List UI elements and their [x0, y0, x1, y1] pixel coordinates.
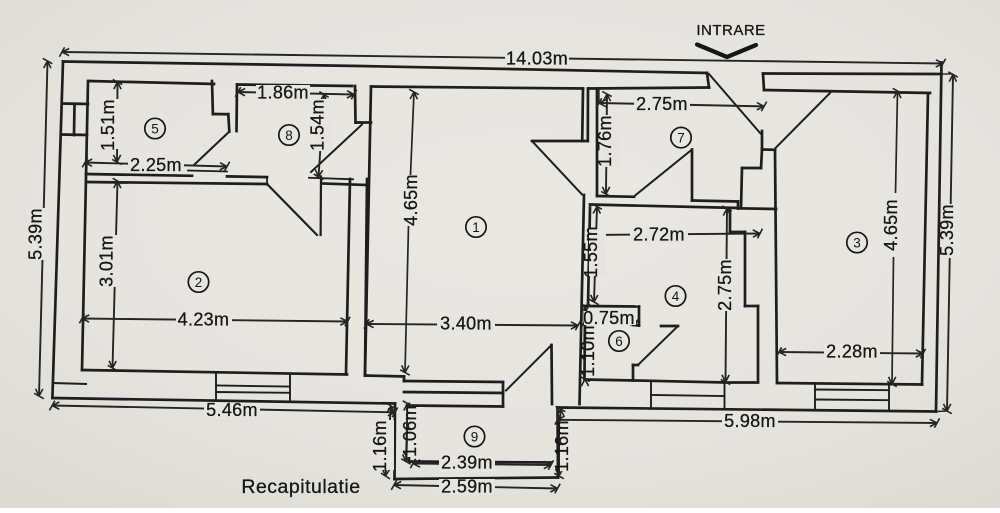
svg-text:5.98m: 5.98m — [724, 411, 776, 431]
window in left wall: mid divider — [73, 104, 76, 135]
wall 7/3 left face jog horizontal — [742, 167, 761, 170]
svg-text:4.65m: 4.65m — [401, 174, 421, 226]
wall between room 2 and room 1: left face — [346, 179, 350, 374]
svg-text:1.76m: 1.76m — [595, 115, 615, 167]
exterior top wall outer line (left of entrance) — [63, 62, 707, 74]
room 2 top wall opening cap — [266, 177, 268, 184]
dimension 1.86m (room 8) — [238, 92, 354, 95]
dimension 1.51m (room 5) — [116, 82, 119, 162]
svg-text:2.25m: 2.25m — [130, 155, 182, 175]
svg-text:2.39m: 2.39m — [441, 453, 493, 473]
room 5 door leaf — [195, 132, 230, 165]
room 2 floor line — [82, 370, 347, 375]
svg-text:4.23m: 4.23m — [178, 310, 230, 330]
room 4 right wall jog — [730, 231, 745, 234]
room 9 outer left wall — [393, 404, 396, 480]
window below room 3: right jamb — [888, 385, 890, 411]
room 7 floor band lower seg b — [738, 207, 776, 210]
dimension 1.16m (room 9 right) — [559, 409, 561, 476]
svg-text:1.16m: 1.16m — [370, 420, 390, 472]
wall room1/room7 post left — [581, 89, 584, 142]
wall 7/3 left face jog vertical — [741, 168, 742, 208]
room number 6 — [609, 331, 629, 351]
room number 8 — [279, 125, 299, 145]
room 1 floor line left part — [365, 376, 404, 377]
svg-text:2: 2 — [195, 275, 203, 290]
room 2 top wall lower line (left of door) — [86, 182, 267, 184]
room 5 right wall lower segment — [228, 114, 229, 131]
window in left wall: top sill — [63, 102, 89, 105]
svg-text:5.39m: 5.39m — [26, 208, 46, 260]
svg-text:5.46m: 5.46m — [206, 400, 258, 420]
shaft right wall — [638, 307, 641, 326]
dimension 1.54m (room 8) — [319, 95, 325, 178]
window below room 1: top line — [404, 381, 503, 382]
window below room 2: left jamb — [215, 373, 217, 401]
room number 9 — [464, 426, 484, 446]
room 7 door leaf — [532, 141, 582, 195]
room 4 right wall lower — [757, 306, 760, 382]
room 9 outer right wall — [556, 408, 559, 478]
window below room 1: right jamb — [502, 382, 505, 407]
room 8/2 door jamb line — [320, 177, 323, 236]
room 6 door leaf — [638, 326, 678, 365]
svg-text:3: 3 — [853, 235, 861, 250]
door room1-room9: leaf — [506, 345, 552, 391]
room 8 right wall jog — [356, 121, 372, 124]
room number 3 — [847, 232, 867, 252]
room 2 top wall upper line seg b — [227, 175, 267, 178]
window below room 3: sill 2 — [815, 399, 889, 402]
room 4 floor seg — [725, 381, 758, 384]
room 7 top wall inner line — [588, 88, 709, 89]
room 5 right wall jog — [213, 113, 228, 116]
room 9 outer bottom wall — [395, 478, 559, 480]
dimension 5.39m left — [39, 61, 48, 396]
wall between room 2 and room 1: right face — [365, 179, 367, 376]
exterior right wall outer line — [936, 63, 942, 412]
wall room1/room7 post right — [586, 89, 589, 142]
exterior top wall outer line (right of entrance) — [763, 72, 942, 75]
room 1 top wall inner line — [371, 87, 583, 89]
shaft top line (0.75m) — [587, 305, 639, 308]
room 7 floor band upper seg a — [597, 195, 634, 199]
room number 7 — [671, 127, 691, 147]
room 2 top wall upper line seg a — [86, 174, 192, 176]
room 6 floor notch horizontal — [633, 364, 638, 367]
svg-text:1.51m: 1.51m — [98, 99, 118, 151]
wall 7/3 left face upper vertical — [761, 150, 762, 169]
room 3 top wall inner line — [764, 90, 930, 93]
room 7 floor band upper seg b — [692, 201, 738, 202]
extension top-right — [942, 73, 954, 75]
window below room 2: sill line 1 — [216, 386, 290, 387]
window in left wall: bottom sill — [62, 133, 88, 136]
dimension 1.06m (room 9 inner left) — [406, 404, 408, 462]
svg-text:7: 7 — [677, 130, 685, 145]
room 7 floor band lower line — [590, 205, 738, 209]
dimension 3.40m (room 1 width) — [367, 324, 579, 326]
room 7 floor band step — [737, 202, 740, 209]
window below room 3: sill 1 — [815, 389, 889, 392]
room 6 door top stub — [661, 325, 678, 328]
svg-text:2.75m: 2.75m — [636, 94, 688, 114]
room 5 door threshold line — [188, 171, 227, 172]
room 6 left wall — [583, 306, 586, 380]
dimension 4.65m (room 1) — [411, 92, 415, 175]
room 5 top wall inner line — [89, 81, 214, 84]
svg-text:4: 4 — [672, 289, 680, 304]
svg-text:2.72m: 2.72m — [633, 225, 685, 245]
room 9 floor inner line — [409, 462, 551, 463]
dimension 14.03m top — [62, 52, 943, 64]
exterior bottom wall outer line (left of room 9) — [52, 398, 395, 404]
room 5 right wall upper segment — [211, 81, 215, 114]
window below room 1: mid line — [404, 392, 503, 393]
dimension 5.46m (bottom left) — [52, 406, 395, 413]
dimension 4.23m (room 2 width) — [82, 319, 348, 322]
svg-text:1: 1 — [472, 220, 480, 235]
room 8 top wall inner line — [237, 85, 352, 87]
dimension 0.75m (shaft) — [585, 320, 637, 323]
room 3 floor line — [777, 383, 922, 385]
window below room 1: bottom line — [407, 406, 503, 407]
entrance door leaf — [709, 74, 761, 134]
svg-text:3.01m: 3.01m — [97, 235, 117, 287]
dimension 2.75m (room 4 height) — [726, 209, 728, 383]
svg-text:1.10m: 1.10m — [578, 325, 598, 377]
room 4 right wall mid — [744, 232, 747, 306]
svg-text:2.28m: 2.28m — [826, 342, 878, 362]
room 7/4 door jamb wall — [691, 150, 694, 201]
dimension 5.98m (bottom right) — [558, 420, 938, 423]
wall 7/3 top edge — [762, 148, 775, 151]
room 8 door threshold line — [309, 178, 353, 180]
dimension 2.39m (room 9 inner width) — [413, 464, 551, 466]
window below room 3: left jamb — [814, 384, 816, 410]
room 8 right wall upper segment — [354, 86, 357, 123]
wall room1/room4 right face — [588, 208, 590, 307]
svg-text:1.86m: 1.86m — [257, 83, 309, 103]
svg-text:1.55m: 1.55m — [581, 226, 601, 278]
dimension 2.59m (room 9 outer width) — [394, 485, 558, 489]
svg-text:4.65m: 4.65m — [881, 199, 901, 251]
entrance opening right jamb — [763, 74, 764, 91]
room number 4 — [665, 286, 685, 306]
entrance opening left jamb — [707, 73, 709, 88]
room 9 inner left wall — [408, 404, 411, 462]
svg-text:2.75m: 2.75m — [715, 259, 735, 311]
svg-text:Recapitulatie: Recapitulatie — [241, 476, 360, 498]
dimension 2.75m (room 7 width) — [599, 103, 764, 106]
dimension 1.10m (room 6) — [582, 304, 586, 311]
dimension 4.65m (room 3) — [896, 91, 898, 193]
dimension 1.76m (room 7) — [606, 94, 607, 194]
dimension 5.39m right — [947, 75, 953, 412]
svg-text:0.75m: 0.75m — [583, 308, 635, 328]
extension 5.98m left — [557, 408, 559, 420]
door room1-room9: jamb wall — [550, 345, 553, 404]
svg-text:1.16m: 1.16m — [552, 420, 572, 472]
room 1 floor step — [403, 377, 406, 382]
wall room1/room7 post cap — [582, 140, 588, 143]
entrance second leaf (to room 3) — [776, 93, 831, 148]
room 4 right wall upper — [729, 210, 732, 232]
room 1 left wall — [365, 87, 371, 376]
left wall inner face (rooms 5 and 2) — [82, 81, 88, 370]
extension for 2.75m left — [598, 89, 600, 103]
window below room 4: right jamb — [724, 383, 726, 410]
svg-text:3.40m: 3.40m — [440, 314, 492, 334]
svg-text:2.59m: 2.59m — [441, 477, 493, 497]
window below room 2: sill line 2 — [216, 391, 290, 394]
extension 5.98m right corner — [936, 410, 947, 413]
window below room 4: top line — [651, 381, 725, 383]
exterior bottom wall outer line (right of room 9) — [558, 408, 937, 412]
floor line rooms 6-4 continuation — [633, 379, 651, 382]
svg-text:14.03m: 14.03m — [506, 49, 568, 69]
room 8 left wall — [235, 85, 238, 132]
svg-text:5: 5 — [151, 121, 159, 136]
room number 5 — [145, 118, 165, 138]
svg-text:6: 6 — [615, 334, 623, 349]
room 6 floor — [585, 380, 634, 381]
room 6 floor notch vertical — [632, 365, 635, 381]
svg-text:1.54m: 1.54m — [308, 99, 328, 151]
exterior left wall outer line — [52, 62, 63, 399]
room 2 top wall lower line (right of door) — [322, 184, 367, 186]
dimension 3.01m (room 2) — [113, 181, 118, 368]
room 1 right wall — [580, 195, 585, 404]
svg-text:INTRARE: INTRARE — [696, 22, 765, 39]
room number 1 — [466, 217, 486, 237]
window below room 2: right jamb — [289, 375, 291, 403]
room 7 door stub — [532, 140, 582, 143]
window below room 4: mid line — [651, 395, 725, 396]
room 8 door leaf — [311, 125, 362, 173]
room 3 right wall inner line — [922, 93, 928, 385]
entrance arrow (V shape) — [697, 45, 756, 58]
room 7 left wall inner face — [596, 89, 599, 197]
dimension 2.28m (room 3 width) — [779, 352, 923, 354]
dimension 2.72m (room 4 width) — [590, 234, 760, 236]
svg-text:8: 8 — [285, 128, 293, 143]
shaft bottom seg — [633, 324, 639, 327]
svg-text:5.39m: 5.39m — [937, 204, 957, 256]
svg-text:9: 9 — [471, 429, 479, 444]
dimension 1.16m (room 9 left) — [386, 406, 392, 476]
wall 7/3 upper left face — [761, 131, 764, 150]
room 8/2 door leaf swinging into room 2 — [268, 185, 317, 235]
room number 2 — [188, 272, 208, 292]
room 7/4 door leaf — [634, 150, 692, 197]
window below room 4: left jamb — [650, 381, 652, 409]
room 4 right wall jog2 — [745, 305, 758, 308]
dimension 1.55m (room 4 left) — [594, 207, 597, 303]
left wall cavity bottom line — [53, 383, 86, 384]
svg-text:1.06m: 1.06m — [400, 405, 420, 457]
room 3 left wall — [775, 150, 777, 383]
dimension 2.25m (room 5) — [85, 163, 227, 167]
